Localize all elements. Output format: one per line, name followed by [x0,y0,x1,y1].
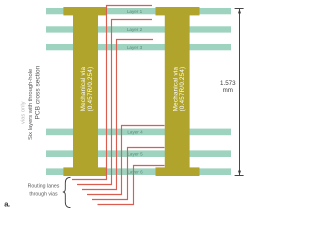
mechanical via 2 top pad [156,7,200,15]
routing lanes label [28,184,60,198]
svg-text:(0.457R/0.254): (0.457R/0.254) [87,67,94,112]
layer 3 copper bar [46,44,231,50]
mechanical via 2 label [172,66,186,111]
svg-text:PCB cross section: PCB cross section [34,65,41,119]
dimension arrowheads [238,9,241,14]
layer 2 copper bar [46,26,231,32]
svg-text:Layer 6: Layer 6 [127,170,143,175]
svg-text:Six layers with through-hole: Six layers with through-hole [28,69,34,140]
svg-text:Layer 1: Layer 1 [127,9,143,14]
svg-text:Layer 4: Layer 4 [127,130,143,135]
routing lane 2 [77,20,152,185]
layer 5 copper bar [46,150,231,157]
layer 4 copper bar [46,129,231,136]
dimension text [220,80,236,94]
routing lane 1 [72,6,152,180]
mechanical via 2 bottom pad [156,167,200,176]
mechanical via 1 label [80,66,94,111]
svg-text:vias only: vias only [21,101,27,124]
svg-text:mm: mm [223,87,233,94]
mechanical via 1 top pad [63,7,106,15]
layer 6 copper bar [46,168,231,175]
svg-text:through vias: through vias [29,191,58,197]
svg-text:(0.457R/0.254): (0.457R/0.254) [179,67,186,112]
svg-text:Layer 2: Layer 2 [127,27,143,32]
brace grouping routing lanes [63,177,71,207]
routing lane 5 [92,148,165,200]
mechanical via 1 bottom pad [63,167,106,176]
layer 1 copper bar [46,8,231,14]
svg-text:Layer 5: Layer 5 [127,152,143,157]
svg-text:a.: a. [4,199,10,208]
svg-text:Layer 3: Layer 3 [127,45,143,50]
mechanical via 1 barrel [73,7,98,176]
svg-text:Routing lanes: Routing lanes [28,184,60,190]
mechanical via 2 barrel [165,7,190,176]
routing lane 6 [98,166,165,205]
routing lane 3 [82,40,153,190]
routing lane 4 [87,126,165,195]
PCB cross section caption (rotated) [21,65,42,140]
dimension line 1.573 mm [235,9,244,176]
